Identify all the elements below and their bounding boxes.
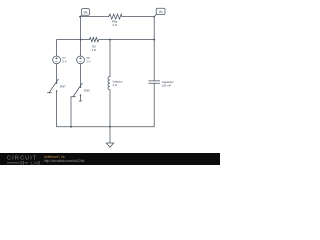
wire V7 to SW7 xyxy=(56,64,58,83)
footer bar xyxy=(0,153,220,165)
wire right rail top (Vo to capacitor) xyxy=(153,17,155,81)
svg-text:4 Ω: 4 Ω xyxy=(92,48,96,52)
inductor L1 xyxy=(108,77,110,90)
svg-text:4 Ω: 4 Ω xyxy=(112,23,116,27)
junction inductor branch / middle wire xyxy=(109,39,111,41)
wire top-right (R6a to Vo node) xyxy=(122,16,154,18)
svg-text:120 mF: 120 mF xyxy=(162,83,172,87)
svg-text:Vo: Vo xyxy=(159,10,163,14)
switch SW6 xyxy=(71,83,82,101)
svg-text:LAB: LAB xyxy=(31,161,41,165)
wire SW6 pole to bottom wire xyxy=(70,97,72,127)
resistor R6a xyxy=(109,14,122,19)
svg-text:SW6: SW6 xyxy=(84,88,91,92)
net flag Va xyxy=(80,9,90,17)
wire bottom rail xyxy=(57,126,155,128)
node Vo junction xyxy=(153,16,155,18)
wire middle-right (inductor branch to right rail) xyxy=(110,39,154,41)
wire middle wire down to inductor xyxy=(109,40,111,77)
net flag Vo xyxy=(154,8,165,16)
wire middle (R2 to inductor branch) xyxy=(99,39,110,41)
wire top-left (Va node to R6a) xyxy=(80,16,109,18)
svg-text:1 V: 1 V xyxy=(86,60,90,64)
wire right rail bottom (capacitor to bottom wire) xyxy=(153,83,155,126)
junction right rail / middle wire xyxy=(153,39,155,41)
junction V6 branch / middle wire xyxy=(80,39,82,41)
svg-text:2 H: 2 H xyxy=(113,83,117,87)
svg-text:http://circuitlab.com/c4c22ab: http://circuitlab.com/c4c22ab xyxy=(44,159,85,163)
wire Va node down to middle wire xyxy=(80,17,82,56)
wire middle-left (corner to V6 branch) xyxy=(57,40,81,56)
switch SW7 xyxy=(47,79,58,93)
capacitor C1 xyxy=(149,81,160,83)
wire SW7 to bottom wire xyxy=(56,91,58,127)
voltage source V6 xyxy=(77,56,85,64)
svg-text:SW7: SW7 xyxy=(60,84,67,88)
junction SW6 branch / bottom wire xyxy=(70,126,72,128)
ground xyxy=(106,127,113,148)
wire inductor to bottom wire xyxy=(109,90,111,127)
CircuitLab logo xyxy=(7,156,41,166)
wire V6 to SW6 xyxy=(80,64,82,87)
svg-text:Va: Va xyxy=(84,10,88,14)
resistor R2 xyxy=(89,37,99,41)
node Va junction xyxy=(79,16,81,18)
junction ground / bottom wire xyxy=(109,126,111,128)
svg-text:5 V: 5 V xyxy=(62,60,66,64)
wire middle (V6 branch to R2) xyxy=(81,39,90,41)
voltage source V7 xyxy=(53,56,61,64)
